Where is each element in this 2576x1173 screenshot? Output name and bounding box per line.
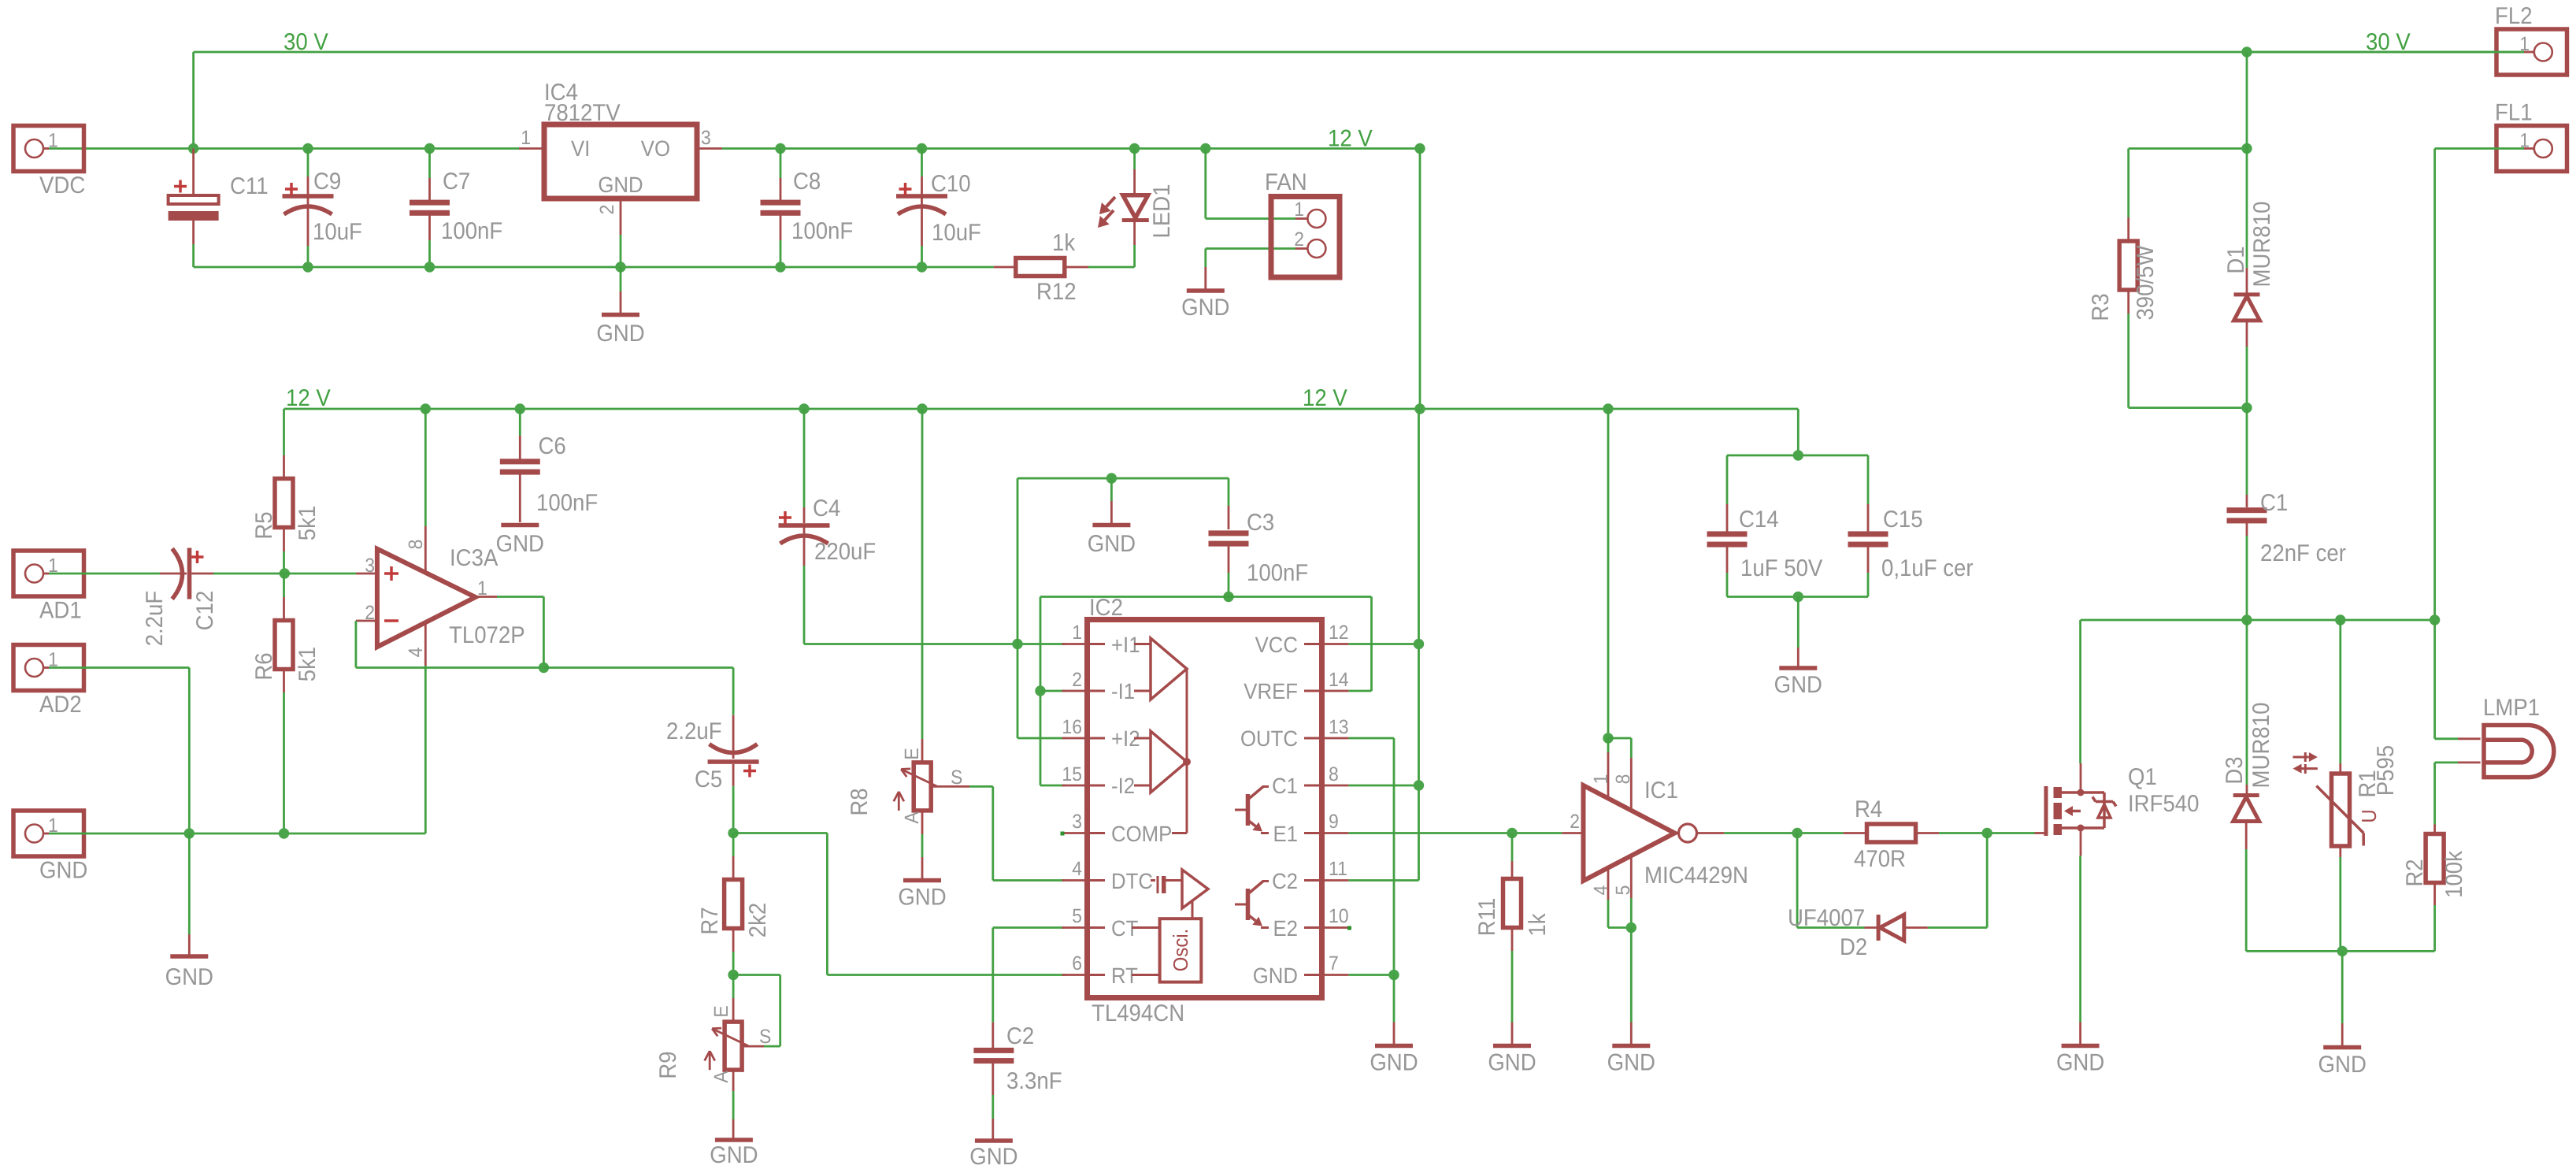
wire R8 wiper to DTC [931,786,1065,880]
svg-text:100nF: 100nF [536,490,598,516]
svg-text:GND: GND [1607,1050,1655,1076]
svg-text:C1: C1 [1272,774,1298,798]
wire top gnd net [1017,478,1229,644]
op-amp IC3A TL072P [356,409,525,833]
junction R6 gnd [279,828,289,838]
junction D1 bottom [2241,403,2252,413]
svg-text:3: 3 [701,127,711,149]
wire +I1 to +I2 [1017,644,1065,739]
wire R9 wiper jog [733,975,780,1047]
connector AD2 [13,645,84,718]
svg-text:TL494CN: TL494CN [1092,1000,1184,1026]
svg-text:IC1: IC1 [1644,778,1678,804]
capacitor C1 22nF cer [2227,408,2346,620]
wire OUTC to gnd [1349,738,1394,975]
svg-text:15: 15 [1062,763,1082,785]
svg-text:11: 11 [1329,858,1347,880]
junction pin7 gnd [1388,970,1399,980]
wire D2 left [1797,833,1864,928]
svg-text:100k: 100k [2441,850,2467,898]
svg-text:Osci.: Osci. [1169,929,1192,971]
varistor R1 P595 [2293,620,2400,951]
junction +I1 [1012,639,1022,649]
svg-text:1uF 50V: 1uF 50V [1740,555,1822,581]
svg-text:D3: D3 [2222,756,2248,784]
svg-text:GND: GND [1088,531,1136,557]
svg-text:R12: R12 [1036,279,1077,305]
ground FAN [1181,267,1229,321]
svg-text:220uF: 220uF [814,539,876,565]
trimmer R8 [847,409,962,824]
svg-text:5: 5 [1612,885,1634,896]
svg-text:13: 13 [1329,716,1349,738]
junction IC1 supply riser [1603,403,1613,414]
connector FL2 [2495,3,2567,75]
ground C6 [496,525,544,558]
svg-text:C3: C3 [1247,510,1274,536]
junction VCC [1414,639,1424,649]
resistor R7 2k2 [697,833,771,975]
svg-text:D2: D2 [1840,934,1867,960]
svg-text:GND: GND [1774,672,1822,698]
capacitor C11 [169,149,269,268]
wire VCC net [1349,409,1419,881]
svg-text:8: 8 [1329,763,1339,785]
svg-text:A: A [710,1071,732,1083]
capacitor C9 [283,149,362,268]
IC2 internal error amp 1 [1134,638,1187,700]
driver IC1 MIC4429N [1562,738,1748,928]
capacitor C8 [761,143,854,273]
net label 12 V rail right [1303,385,1347,411]
wire C14 C15 supply [1727,409,1868,504]
svg-text:IRF540: IRF540 [2128,791,2200,817]
ground Q1 source [2056,856,2104,1076]
wire lower gnd bus [2246,950,2434,952]
svg-text:E: E [901,748,923,759]
svg-text:10: 10 [1329,905,1349,927]
svg-text:C12: C12 [192,591,218,631]
svg-text:16: 16 [1062,716,1082,738]
svg-text:1: 1 [477,577,487,599]
wire plus-input gnd line [804,643,1065,645]
junction 12V riser at rail [1414,403,1425,414]
IC2 internal transistor Q one [1235,787,1269,833]
IC2 pin 10 E2 [1273,905,1348,941]
svg-text:GND: GND [969,1144,1017,1170]
svg-text:R9: R9 [655,1051,681,1078]
svg-text:LED1: LED1 [1149,184,1175,238]
svg-text:IC3A: IC3A [450,545,498,571]
svg-text:-I2: -I2 [1111,774,1135,798]
junction AD2 gnd [184,828,195,838]
svg-text:E: E [710,1005,732,1017]
capacitor C2 3.3nF [973,928,1065,1140]
capacitor C15 0.1uF cer [1848,504,1974,597]
svg-text:C5: C5 [695,767,722,793]
junction IC3A supply [421,403,431,414]
ground analog input [165,833,213,990]
diode D2 UF4007 [1788,905,1928,960]
svg-text:GND: GND [2056,1050,2104,1076]
svg-text:VREF: VREF [1244,679,1298,703]
ground TL494 [1370,975,1418,1076]
resistor R6 5k1 [251,574,321,833]
svg-text:8: 8 [1612,774,1634,785]
svg-text:1k: 1k [1525,913,1551,937]
wire R4 to gate [1939,832,2035,834]
junction IC4 gnd [615,262,625,272]
ground output network [2318,951,2367,1078]
svg-text:8: 8 [405,540,427,550]
junction C5 R7 [728,828,738,838]
svg-text:UF4007: UF4007 [1788,905,1865,931]
wire FL1 riser [2435,149,2524,621]
svg-text:A: A [901,811,923,824]
svg-text:C15: C15 [1883,507,1923,533]
wire gnd net [49,833,425,835]
svg-text:7812TV: 7812TV [544,100,621,126]
resistor R2 100k [2402,825,2467,952]
svg-text:C10: C10 [931,171,971,197]
capacitor C6 100nF [500,409,598,522]
svg-text:100nF: 100nF [441,218,502,244]
svg-text:1: 1 [1072,622,1082,644]
capacitor C4 220uF [779,409,877,644]
ground IC4 [596,267,644,347]
svg-text:12 V: 12 V [1303,385,1347,411]
svg-text:4: 4 [1072,858,1082,880]
lamp LMP1 [2435,620,2554,825]
svg-text:2.2uF: 2.2uF [142,591,168,647]
svg-text:GND: GND [898,885,946,911]
svg-text:1: 1 [1590,774,1612,785]
junction IC1 gnd pins [1626,922,1636,933]
svg-text:C7: C7 [443,169,470,195]
net label 30 V right [2366,29,2411,55]
junction at C7 [424,143,435,154]
svg-text:C2: C2 [1272,869,1298,893]
wire 30V rail [194,52,2524,149]
svg-text:3.3nF: 3.3nF [1006,1068,1062,1094]
svg-text:GND: GND [1253,963,1298,988]
svg-text:LMP1: LMP1 [2483,695,2540,721]
wire feedback to C5 [543,666,733,669]
net label 12 V at regulator output [1328,126,1373,152]
IC2 pin 14 VREF [1244,669,1348,703]
svg-text:R7: R7 [697,907,723,934]
svg-text:MUR810: MUR810 [2248,703,2274,789]
wire AD2 to gnd net [49,668,189,834]
svg-text:Q1: Q1 [2128,764,2157,790]
junction R5 R6 input [280,568,290,578]
capacitor C14 1uF 50V [1707,504,1823,597]
svg-text:C14: C14 [1739,507,1779,533]
svg-text:7: 7 [1329,952,1339,974]
ground R11 [1488,1046,1536,1076]
IC2 pin 15 -I2 [1062,763,1135,798]
junction D1 top [2241,143,2252,154]
svg-text:2: 2 [1294,228,1304,251]
svg-text:C4: C4 [813,496,840,522]
svg-text:E1: E1 [1273,822,1298,846]
svg-text:2.2uF: 2.2uF [666,718,722,744]
svg-text:390/5W: 390/5W [2133,245,2159,321]
svg-text:C2: C2 [1006,1023,1034,1049]
wire C5 node to RT [733,833,1066,975]
svg-text:0,1uF cer: 0,1uF cer [1881,555,1974,581]
wire op-amp feedback [356,597,544,668]
svg-text:1: 1 [48,130,58,152]
junction C9 gnd [302,262,313,272]
junction gate node [1982,828,1992,838]
ground R9 [710,1070,758,1168]
junction drain R1 [2335,614,2345,625]
wire 12V rail 2 [284,408,1799,410]
capacitor C12 2.2uF [49,548,284,647]
wire FAN 12V [1200,143,1307,219]
IC2 internal transistor Q two [1235,882,1269,928]
junction C1 collector [1414,780,1424,790]
ground C14 C15 [1774,597,1822,699]
ground C2 [969,1141,1017,1170]
svg-text:4: 4 [405,648,427,658]
svg-text:FAN: FAN [1265,169,1307,195]
svg-text:5k1: 5k1 [295,506,321,541]
junction C4 [799,403,809,414]
svg-text:30 V: 30 V [284,29,328,55]
junction 12V riser right [1414,143,1425,409]
svg-text:GND: GND [165,964,213,990]
svg-text:2: 2 [1072,669,1082,691]
svg-text:2k2: 2k2 [745,903,771,938]
svg-text:U: U [2357,809,2381,822]
wire VDC input line [49,147,519,150]
svg-text:3: 3 [1072,811,1082,833]
capacitor C7 [410,149,502,268]
connector VDC [13,126,85,199]
junction top gnd [1106,473,1117,483]
wire drain node [2081,620,2435,763]
svg-text:470R: 470R [1854,846,1906,872]
svg-text:9: 9 [1329,811,1339,833]
IC2 pin 12 VCC [1255,622,1349,657]
svg-text:22nF cer: 22nF cer [2260,540,2346,566]
svg-text:C6: C6 [539,433,566,459]
svg-text:1: 1 [521,127,531,149]
junction IC1 supply [1603,733,1613,743]
svg-text:C8: C8 [793,169,821,195]
wire IC1 supply riser [1607,409,1610,738]
svg-text:GND: GND [2318,1052,2367,1078]
capacitor C3 100nF [1209,478,1309,596]
svg-text:12: 12 [1329,622,1349,644]
wire GND rail [194,266,994,269]
ground top net [1088,478,1136,557]
IC2 pin 2 -I1 [1062,669,1136,703]
transistor Q1 IRF540 [2035,763,2200,856]
resistor R5 5k1 [251,409,321,574]
svg-text:GND: GND [710,1142,758,1168]
trimmer R9 [655,975,771,1083]
IC2 internal pin stubs [1088,644,1321,975]
diode D1 MUR810 [2223,52,2275,408]
IC2 pin 11 C2 [1272,858,1349,893]
IC2 pin 9 E1 [1273,811,1348,846]
resistor R3 390/5W [2088,149,2247,408]
wire VREF net [1040,597,1372,786]
svg-text:R2: R2 [2402,859,2428,886]
svg-text:VDC: VDC [39,173,85,199]
connector AD1 [13,551,84,624]
LED LED1 [1098,143,1175,245]
svg-text:2: 2 [596,205,618,215]
svg-text:MIC4429N: MIC4429N [1644,863,1748,889]
net label 12 V rail left [286,385,331,411]
svg-text:C9: C9 [313,169,341,195]
svg-text:VO: VO [641,136,670,161]
IC2 pin 7 GND [1253,952,1349,988]
junction C14 C15 bottom [1793,592,1803,602]
junction -I1 [1035,685,1065,696]
capacitor C10 [896,143,981,273]
svg-text:C11: C11 [230,173,269,199]
svg-text:GND: GND [596,321,644,347]
svg-text:IC2: IC2 [1089,595,1123,621]
svg-text:R4: R4 [1855,796,1882,822]
junction C14 C15 top [1793,450,1803,460]
wire pin7 gnd [1349,974,1394,976]
svg-text:-I1: -I1 [1111,679,1135,703]
svg-text:DTC: DTC [1111,869,1153,893]
svg-text:4: 4 [1590,885,1612,896]
voltage regulator IC4 7812TV [519,80,722,267]
svg-text:VI: VI [571,136,590,161]
junction C7 gnd [424,262,435,272]
svg-text:VCC: VCC [1255,633,1298,657]
IC2 pin 1 +I1 [1062,622,1140,657]
IC2 pin 4 DTC [1062,858,1153,893]
IC2 pin 13 OUTC [1240,716,1349,751]
svg-text:GND: GND [1370,1050,1418,1076]
wire D2 right [1928,833,1987,928]
wire C14 C15 bottom [1727,596,1868,598]
svg-text:R8: R8 [847,788,873,815]
wire R12 to LED [1088,245,1135,267]
svg-text:D1: D1 [2223,246,2249,273]
IC2 internal oscillator box [1132,919,1201,982]
wire FAN gnd side [1206,249,1308,268]
svg-text:1: 1 [1294,199,1304,221]
svg-text:R11: R11 [1474,898,1500,937]
junction drain FL1 [2430,614,2440,625]
svg-text:GND: GND [1181,295,1229,321]
IC2 pin 3 COMP [1062,811,1173,846]
svg-text:100nF: 100nF [1247,560,1308,586]
junction lower gnd bus [2337,946,2348,956]
connector FAN [1265,169,1340,277]
svg-text:AD2: AD2 [39,692,82,718]
connector FL1 [2495,100,2567,172]
IC2 pin 6 RT [1062,952,1138,988]
svg-text:COMP: COMP [1111,822,1172,846]
capacitor C5 2.2uF [666,668,759,833]
svg-text:2: 2 [365,602,375,624]
wire driver output [1724,832,1843,834]
resistor R12 1k [994,230,1088,305]
IC2 pin 5 CT [1062,905,1139,941]
connector GND [13,811,87,884]
svg-text:S: S [759,1026,771,1048]
svg-text:5: 5 [1072,905,1082,927]
svg-text:6: 6 [1072,952,1082,974]
ground R8 [898,811,946,911]
junction at C9 [302,143,313,154]
wire E1 to driver [1349,832,1562,834]
svg-text:100nF: 100nF [791,218,853,244]
svg-text:P595: P595 [2373,745,2399,796]
svg-text:R3: R3 [2088,293,2114,321]
wire 12V from IC4 [722,147,1420,150]
junction C3 vref [1223,592,1233,602]
svg-text:GND: GND [39,858,87,884]
resistor R4 470R [1844,796,1939,872]
resistor R11 1k [1474,833,1551,1045]
svg-text:E2: E2 [1273,916,1298,941]
svg-text:10uF: 10uF [932,220,981,246]
net label 30 V left [284,29,328,55]
ground IC1 [1607,928,1655,1076]
IC IC2 TL494CN body [1088,595,1322,1026]
junction at C11 [188,143,198,154]
junction R7 R9 [728,970,738,980]
svg-text:MUR810: MUR810 [2249,202,2275,288]
wire input to op-amp [284,573,356,575]
junction driver output [1792,828,1802,838]
svg-text:S: S [951,767,962,789]
junction feedback [539,663,549,673]
junction C6 [515,403,525,414]
svg-text:GND: GND [496,531,544,557]
svg-text:14: 14 [1329,669,1349,691]
IC2 internal DTC cap and buffer [1151,870,1208,919]
svg-text:TL072P: TL072P [449,622,525,648]
svg-text:OUTC: OUTC [1240,726,1298,751]
svg-text:R5: R5 [251,511,277,539]
wire FL2 to 30V [2241,46,2524,57]
svg-text:5k1: 5k1 [295,647,321,682]
unconnected pin end marks [1061,832,1352,930]
IC2 pin 8 C1 [1272,763,1349,798]
svg-text:12 V: 12 V [286,385,331,411]
IC2 internal error amp 2 [1134,669,1191,833]
junction drain C1 [2241,614,2252,625]
svg-text:3: 3 [365,555,375,577]
junction R11 [1507,828,1517,838]
svg-text:GND: GND [1488,1050,1536,1076]
svg-text:C1: C1 [2260,490,2288,516]
diode D3 MUR810 [2222,620,2274,951]
svg-text:FL1: FL1 [2495,100,2533,126]
svg-text:10uF: 10uF [313,219,362,245]
svg-text:AD1: AD1 [39,598,82,624]
junction R8 [917,403,927,414]
svg-text:GND: GND [598,173,643,197]
IC2 pin 16 +I2 [1062,716,1140,751]
svg-text:12 V: 12 V [1328,126,1373,152]
svg-text:R6: R6 [251,652,277,680]
svg-text:1k: 1k [1052,230,1076,256]
